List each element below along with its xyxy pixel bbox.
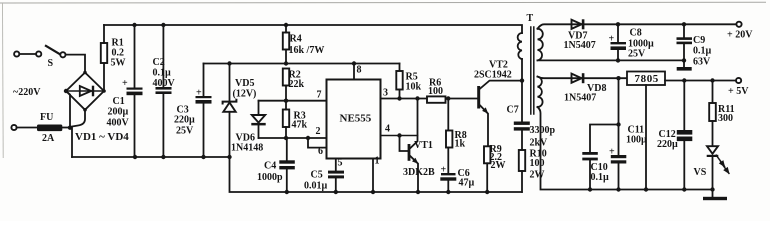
wire 12V rail (204, 63, 400, 65)
IC U1 NE555 (327, 80, 381, 159)
node rail R9 (485, 190, 489, 194)
node return C9 (682, 58, 686, 62)
svg-text:C8: C8 (630, 28, 642, 39)
svg-text:25V: 25V (628, 49, 646, 60)
node rail VT1 emitter (416, 190, 420, 194)
capacitor C6 47u (440, 165, 474, 189)
wire ground rail left section (72, 156, 230, 158)
svg-text:R4: R4 (290, 34, 302, 45)
svg-text:VS: VS (694, 167, 707, 178)
ground 5V section (703, 190, 727, 201)
node rail C6 (446, 190, 450, 194)
svg-text:100µ: 100µ (626, 135, 647, 146)
node pin6 branch (306, 136, 310, 140)
svg-text:2W: 2W (530, 170, 545, 181)
resistor R8 1k (446, 130, 467, 150)
svg-text:FU: FU (40, 112, 53, 123)
svg-text:C5: C5 (311, 170, 323, 181)
svg-text:7: 7 (317, 90, 322, 101)
node 12V rail R4 (284, 61, 288, 65)
wire primary bottom to C7 (521, 59, 523, 122)
wire LED to rail (712, 157, 714, 190)
LED VS (694, 146, 732, 178)
svg-text:220µ: 220µ (174, 115, 195, 126)
fuse FU 2A (37, 112, 62, 144)
resistor R11 300 (709, 103, 734, 124)
node rail C1 (133, 155, 137, 159)
wire R3 leads (285, 101, 287, 110)
svg-text:300: 300 (718, 113, 733, 124)
wire fuse to bridge junction (62, 127, 70, 129)
node rail pin1 (371, 190, 375, 194)
svg-text:200µ: 200µ (108, 107, 129, 118)
svg-text:0.01µ: 0.01µ (304, 181, 328, 192)
svg-text:2kV: 2kV (530, 138, 549, 149)
terminal +20V (727, 22, 753, 41)
resistor R5 10k (396, 71, 421, 93)
svg-text:3DK2B: 3DK2B (403, 167, 435, 178)
node pin4 (397, 133, 401, 137)
wire C2 upper lead (162, 25, 164, 87)
terminal input N (11, 125, 16, 130)
capacitor C10 0.1u (582, 152, 609, 190)
node rail C10 (588, 187, 592, 191)
wire pin 5 upper (335, 159, 337, 171)
wire VD6 lower lead (258, 125, 260, 138)
wire N terminal to fuse (17, 127, 38, 129)
resistor R2 22k (283, 69, 305, 91)
node top rail / R4 (284, 23, 288, 27)
svg-text:C1: C1 (113, 96, 125, 107)
svg-text:+ 5V: + 5V (728, 86, 749, 97)
wire R9 lower lead (486, 163, 488, 192)
svg-text:400V: 400V (153, 78, 176, 89)
capacitor C2 0.1u 400V (153, 57, 176, 94)
svg-text:100: 100 (428, 86, 443, 97)
svg-text:47k: 47k (292, 120, 308, 131)
svg-text:VT1: VT1 (414, 140, 433, 151)
capacitor C3 220u 25V (174, 88, 212, 137)
wire pin 8 (353, 64, 355, 80)
node pin3 VT1 collector (415, 96, 419, 100)
terminal input L (14, 51, 19, 56)
svg-text:7805: 7805 (635, 73, 659, 85)
wire R4 leads (285, 25, 287, 33)
transistor VT2 2SC1942 (474, 60, 522, 147)
wire bridge right corner up to R1 (103, 63, 105, 91)
svg-text:1k: 1k (455, 139, 466, 150)
node R2 R3 pin7 (284, 99, 288, 103)
capacitor C11 100u (609, 125, 647, 190)
svg-text:6: 6 (318, 146, 323, 157)
svg-text:2A: 2A (42, 133, 55, 144)
svg-text:VD1 ~ VD4: VD1 ~ VD4 (75, 131, 129, 143)
node rail VD5 (227, 155, 231, 159)
terminal +5V (728, 78, 749, 97)
wire bridge left corner down to fuse junction (66, 91, 70, 128)
svg-text:5: 5 (338, 158, 343, 169)
wire secondary2 top to VD8 line (538, 77, 628, 79)
node +20V C8 (616, 22, 620, 26)
node top rail / C1 (132, 23, 136, 27)
svg-text:3300p: 3300p (530, 125, 556, 136)
wire R2 leads (285, 86, 287, 101)
bridge rectifier VD1~VD4 (64, 71, 129, 143)
svg-text:0.1µ: 0.1µ (693, 46, 712, 57)
node R3 C4 (284, 136, 288, 140)
wire R1 to top rail (103, 25, 105, 43)
wire C3 upper lead (203, 64, 205, 97)
svg-text:2SC1942: 2SC1942 (474, 70, 512, 81)
svg-text:47µ: 47µ (459, 178, 475, 189)
node rail 7805 (644, 187, 648, 191)
capacitor C1 200u 400V (107, 78, 143, 129)
resistor R9 2.2 2W (484, 144, 506, 171)
wire pin2 line (259, 137, 327, 139)
wire R11 upper lead (712, 81, 714, 104)
svg-text:S: S (48, 58, 54, 69)
svg-text:220µ: 220µ (657, 139, 678, 150)
svg-text:+: + (122, 78, 128, 89)
node collector / primary (520, 78, 524, 82)
node rail VS (710, 187, 714, 191)
wire VT1 base lead (400, 136, 408, 152)
wire 7805 ground leg (645, 85, 647, 190)
wire C5 lower lead (335, 178, 337, 192)
diode VD6 1N4148 (231, 115, 266, 154)
svg-text:0.1µ: 0.1µ (153, 68, 172, 79)
wire pin7 line (259, 100, 327, 102)
node VD8 line C11 (616, 76, 620, 80)
wire 12V rail corner to R5 (399, 64, 401, 72)
node rail C4 (285, 190, 289, 194)
resistor R1 0.2 5W (101, 38, 126, 69)
svg-text:C2: C2 (153, 57, 165, 68)
svg-text:10k: 10k (406, 82, 422, 93)
node pin3 R5 (397, 96, 401, 100)
diode VD8 1N5407 (564, 73, 606, 103)
wire bridge bottom corner down to ground rail (72, 110, 85, 157)
capacitor C9 0.1u 63V (677, 24, 712, 67)
svg-text:2: 2 (316, 126, 321, 137)
wire C1 lower lead (134, 95, 136, 157)
wire R8 lower lead (447, 148, 449, 174)
wire R10 lower lead (521, 171, 523, 192)
svg-text:5W: 5W (111, 58, 126, 69)
wire VD5 upper lead (229, 64, 231, 102)
wire C10 branch (590, 125, 619, 153)
svg-text:NE555: NE555 (340, 113, 372, 125)
svg-text:VD5: VD5 (235, 78, 254, 89)
svg-text:0.1µ: 0.1µ (591, 172, 610, 183)
wire C1 upper lead (134, 25, 136, 88)
svg-text:16k /7W: 16k /7W (289, 45, 325, 56)
node C10 branch (616, 122, 620, 126)
svg-text:2W: 2W (491, 160, 506, 171)
zener diode VD5 12V (223, 78, 257, 112)
wire R11 to LED (712, 121, 714, 146)
wire switch to bridge top (66, 55, 85, 73)
node +5V R11 (710, 78, 714, 82)
svg-text:C4: C4 (264, 161, 276, 172)
node +5V C12 (682, 78, 686, 82)
wire rail step down (230, 157, 522, 192)
capacitor C7 3300p 2kV (507, 105, 556, 149)
svg-text:~220V: ~220V (13, 87, 41, 98)
svg-text:400V: 400V (107, 118, 130, 129)
node return C8 (616, 58, 620, 62)
svg-text:100: 100 (530, 158, 545, 169)
node top rail / C2 (161, 23, 165, 27)
capacitor C12 220u (657, 81, 692, 190)
wire VD6 upper lead (258, 101, 260, 115)
svg-text:1N5407: 1N5407 (564, 40, 596, 51)
junction fuse/bridge (68, 126, 72, 130)
resistor R6 100 (427, 78, 446, 103)
diode VD7 1N5407 (564, 19, 596, 51)
wire pin3 line (381, 98, 478, 100)
svg-text:63V: 63V (693, 57, 711, 68)
capacitor C5 0.01u (304, 170, 344, 192)
capacitor C4 1000p (257, 138, 295, 192)
svg-text:3: 3 (383, 88, 388, 99)
wire 7805 output +5V line (665, 80, 736, 82)
regulator 7805 (627, 72, 665, 86)
wire L terminal to switch (20, 53, 37, 55)
wire R5 lower lead (399, 90, 401, 99)
svg-text:1N4148: 1N4148 (231, 143, 263, 154)
node +20V C9 (682, 22, 686, 26)
svg-text:8: 8 (357, 65, 362, 76)
svg-text:1: 1 (375, 156, 380, 167)
wire R8 upper lead (447, 99, 449, 131)
wire secondary1 top to +20V line (538, 24, 737, 28)
node rail C5 (334, 190, 338, 194)
svg-text:(12V): (12V) (233, 89, 257, 100)
node rail C2 (161, 155, 165, 159)
faint page edge top (0, 1, 766, 4)
node rail C11 (616, 187, 620, 191)
wire 20V return line (538, 59, 685, 61)
wire pin 1 to ground rail (372, 159, 374, 193)
node 12V rail pin8 (352, 61, 356, 65)
svg-text:1N5407: 1N5407 (564, 93, 596, 104)
svg-text:25V: 25V (176, 126, 194, 137)
node rail C3 (201, 155, 205, 159)
svg-text:T: T (527, 13, 534, 24)
wire C3 lower lead (203, 104, 205, 157)
svg-text:1000p: 1000p (257, 172, 283, 183)
wire C2 lower lead (162, 94, 164, 157)
resistor R3 47k (283, 110, 308, 131)
wire pin6 branch (308, 138, 327, 148)
svg-text:+ 20V: + 20V (727, 30, 753, 41)
svg-text:C7: C7 (507, 105, 519, 116)
wire top rail (104, 25, 522, 33)
wire secondary2 bottom to rail (538, 107, 714, 190)
svg-text:22k: 22k (289, 79, 305, 90)
node 12V rail VD5 (227, 61, 231, 65)
faint page edge left (2, 3, 5, 158)
wire C6 lower lead (447, 181, 449, 192)
wire VD5 lower lead (229, 112, 231, 157)
ground 20V section (677, 60, 692, 70)
capacitor C8 1000u 25V (609, 24, 655, 60)
node pin3 R8 (446, 96, 450, 100)
svg-text:C9: C9 (693, 35, 705, 46)
wire pin4 line (381, 135, 418, 137)
svg-text:4: 4 (385, 124, 390, 135)
node rail C12 (682, 187, 686, 191)
transformer T (518, 13, 543, 114)
transistor VT1 3DK2B (403, 99, 435, 193)
resistor R10 100 2W (519, 149, 547, 181)
resistor R4 16k/7W (283, 33, 325, 57)
wire C11 vertical (618, 78, 620, 155)
wire C7 to R10 (521, 131, 523, 150)
switch S (36, 45, 65, 69)
